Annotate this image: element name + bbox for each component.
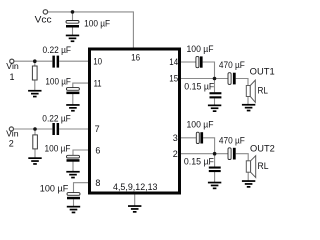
svg-text:2: 2 xyxy=(173,149,178,159)
svg-text:0.22 µF: 0.22 µF xyxy=(43,45,72,55)
svg-text:100 µF: 100 µF xyxy=(187,44,215,54)
svg-text:Vin: Vin xyxy=(6,129,19,139)
svg-text:1: 1 xyxy=(10,72,15,82)
svg-text:OUT2: OUT2 xyxy=(250,144,275,154)
svg-text:2: 2 xyxy=(9,138,14,148)
svg-text:RL: RL xyxy=(258,86,269,96)
svg-text:7: 7 xyxy=(95,124,100,134)
svg-text:100 µF: 100 µF xyxy=(45,144,72,154)
svg-text:3: 3 xyxy=(173,133,178,143)
svg-text:4,5,9,12,13: 4,5,9,12,13 xyxy=(113,182,158,192)
svg-text:0.15 µF: 0.15 µF xyxy=(184,81,215,91)
svg-text:15: 15 xyxy=(169,74,178,84)
svg-text:100 µF: 100 µF xyxy=(40,183,69,193)
svg-text:0.15 µF: 0.15 µF xyxy=(184,156,215,166)
svg-text:Vcc: Vcc xyxy=(35,15,52,25)
svg-text:RL: RL xyxy=(258,161,269,171)
svg-text:Vin: Vin xyxy=(6,61,19,71)
svg-text:470 µF: 470 µF xyxy=(219,136,246,146)
svg-text:100 µF: 100 µF xyxy=(187,120,215,130)
svg-text:16: 16 xyxy=(131,52,140,62)
svg-text:14: 14 xyxy=(169,57,178,67)
svg-text:100 µF: 100 µF xyxy=(45,77,71,87)
svg-text:100 µF: 100 µF xyxy=(84,18,111,28)
svg-text:8: 8 xyxy=(95,178,100,188)
svg-text:0.22 µF: 0.22 µF xyxy=(42,114,71,124)
svg-text:OUT1: OUT1 xyxy=(250,66,275,76)
svg-text:470 µF: 470 µF xyxy=(219,60,246,70)
svg-text:6: 6 xyxy=(95,145,100,155)
svg-text:11: 11 xyxy=(94,78,102,88)
svg-text:10: 10 xyxy=(93,56,102,66)
